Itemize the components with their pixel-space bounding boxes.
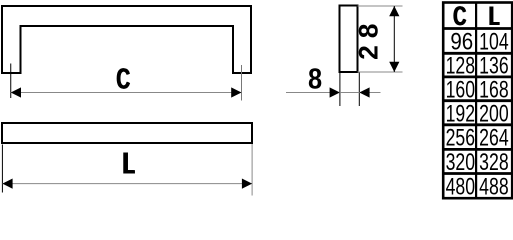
svg-text:C: C	[117, 64, 131, 96]
svg-text:200: 200	[479, 101, 508, 127]
svg-text:488: 488	[479, 174, 508, 200]
svg-text:104: 104	[479, 29, 509, 55]
svg-text:96: 96	[450, 28, 473, 55]
svg-text:192: 192	[446, 101, 475, 127]
svg-text:136: 136	[479, 53, 508, 79]
svg-text:256: 256	[446, 125, 475, 151]
svg-text:264: 264	[479, 125, 509, 151]
svg-text:160: 160	[446, 77, 475, 103]
svg-text:320: 320	[446, 150, 475, 176]
svg-text:28: 28	[354, 16, 384, 59]
svg-text:168: 168	[479, 77, 508, 103]
svg-text:128: 128	[446, 53, 475, 79]
svg-text:328: 328	[479, 150, 508, 176]
svg-text:L: L	[490, 1, 500, 31]
svg-text:8: 8	[308, 63, 322, 95]
svg-text:L: L	[124, 147, 136, 181]
svg-text:C: C	[454, 0, 467, 30]
svg-text:480: 480	[446, 174, 475, 200]
